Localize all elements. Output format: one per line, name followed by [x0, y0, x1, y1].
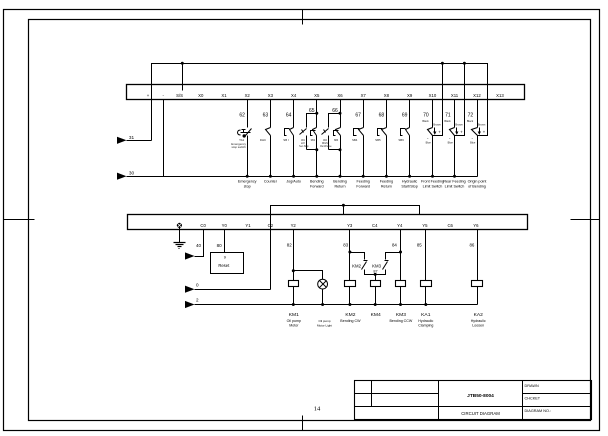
wire KM2 interlock branch — [350, 253, 365, 260]
svg-text:64: 64 — [286, 113, 292, 119]
svg-text:Oil pump: Oil pump — [318, 319, 330, 323]
node 87 junction — [374, 273, 377, 276]
svg-text:X10: X10 — [429, 93, 437, 98]
coil KA1 hydraulic clamping — [421, 281, 432, 287]
svg-text:67: 67 — [355, 113, 361, 119]
svg-text:71: 71 — [445, 113, 451, 119]
svg-text:X3: X3 — [268, 93, 274, 98]
svg-text:Sen Stop: Sen Stop — [299, 145, 309, 148]
wire net 30 rail — [127, 176, 478, 178]
selector switch SB1 jog-auto contact 64 — [293, 100, 295, 128]
svg-text:Bending: Bending — [310, 179, 324, 183]
svg-text:of Bending: of Bending — [468, 185, 486, 189]
svg-text:Emergency: Emergency — [238, 179, 257, 183]
svg-text:Run/Pause: Run/Pause — [320, 146, 332, 148]
svg-text:Counter: Counter — [264, 179, 278, 183]
wire net 40 — [195, 230, 204, 257]
svg-text:X12: X12 — [473, 93, 481, 98]
coil KM4 star contactor — [375, 275, 377, 281]
svg-text:Return: Return — [381, 185, 392, 189]
pushbutton TA1 emergency stop contact 62 — [247, 100, 249, 128]
parallel contacts 66 bending return — [340, 100, 342, 114]
svg-text:DRAWN: DRAWN — [525, 384, 539, 388]
svg-text:S/S: S/S — [176, 93, 183, 98]
svg-text:X6: X6 — [337, 93, 343, 98]
svg-text:CHCKET: CHCKET — [525, 396, 541, 400]
svg-text:Limit Switch: Limit Switch — [423, 185, 443, 189]
pushbutton SB6 contact 69 — [409, 100, 411, 128]
wire C2 common drop — [270, 206, 272, 290]
coil KM2 bending CW — [345, 281, 356, 287]
pushbutton SB5 contact 68 — [386, 100, 388, 128]
wire Y2 drop — [293, 230, 295, 281]
svg-text:Origin point: Origin point — [468, 179, 487, 183]
svg-text:2: 2 — [196, 297, 199, 302]
svg-text:DIAGRAM NO.:: DIAGRAM NO.: — [525, 409, 552, 413]
svg-text:Y1: Y1 — [245, 223, 251, 228]
svg-text:Black: Black — [444, 119, 451, 123]
node Y2 branch — [292, 269, 295, 272]
net 0 arrow — [185, 286, 195, 293]
switch DHC counter contact 63 — [270, 100, 272, 128]
pushbutton SB4 contact 67 — [363, 100, 365, 128]
svg-text:SB I: SB I — [283, 138, 289, 142]
svg-text:Bending CW: Bending CW — [340, 319, 361, 323]
svg-text:DHC: DHC — [260, 138, 266, 142]
svg-text:X8: X8 — [384, 93, 390, 98]
centre tick bottom — [302, 416, 304, 431]
svg-text:Brown: Brown — [455, 122, 463, 126]
svg-text:RIGN: RIGN — [322, 143, 328, 145]
wire Y6 drop — [477, 230, 479, 281]
svg-text:68: 68 — [379, 113, 385, 119]
svg-text:80: 80 — [217, 243, 223, 248]
svg-text:X4: X4 — [291, 93, 297, 98]
svg-text:Black: Black — [467, 119, 474, 123]
wire sensor70 plus drop — [433, 64, 443, 136]
svg-text:Y6: Y6 — [473, 223, 479, 228]
node Y3 branch — [348, 251, 351, 254]
svg-text:87: 87 — [373, 269, 377, 273]
svg-text:72: 72 — [468, 113, 474, 119]
contact KM3 NC interlock — [385, 260, 389, 262]
wire minus drop — [163, 100, 165, 177]
svg-text:62: 62 — [239, 113, 245, 119]
svg-text:X11: X11 — [451, 93, 459, 98]
svg-text:Hydraulic: Hydraulic — [418, 319, 433, 323]
net 2 arrow — [185, 301, 195, 308]
proximity sensor contact 71 — [454, 100, 456, 128]
svg-text:X9: X9 — [407, 93, 413, 98]
coil KM1 oil pump motor — [289, 281, 299, 287]
svg-text:Motor: Motor — [289, 324, 299, 328]
svg-text:Limit Switch: Limit Switch — [445, 185, 465, 189]
node sensor71 plus — [463, 62, 466, 65]
svg-text:83: 83 — [343, 243, 348, 248]
wire common link drop — [343, 206, 345, 215]
svg-text:14: 14 — [314, 406, 321, 413]
svg-text:SB3: SB3 — [334, 140, 339, 142]
svg-text:Bending CCW: Bending CCW — [390, 319, 413, 323]
svg-text:C6: C6 — [447, 223, 453, 228]
PLC output terminal block — [128, 215, 528, 230]
svg-text:Feeding: Feeding — [380, 179, 393, 183]
svg-text:KA2: KA2 — [474, 312, 484, 318]
svg-text:KA1: KA1 — [421, 312, 431, 318]
svg-text:KM3: KM3 — [372, 264, 381, 269]
svg-text:KM3: KM3 — [396, 312, 406, 318]
wire +24V top rail — [152, 64, 488, 141]
parallel contacts 65 bending forward — [316, 100, 318, 114]
svg-text:KM2: KM2 — [352, 264, 361, 269]
svg-text:C4: C4 — [372, 223, 378, 228]
svg-text:Y4: Y4 — [397, 223, 403, 228]
wire lamp branch — [294, 271, 323, 280]
contact KM2 NC interlock — [364, 260, 368, 262]
svg-text:9: 9 — [224, 255, 226, 259]
svg-text:X0: X0 — [198, 93, 204, 98]
wire net 31 — [127, 140, 152, 142]
svg-text:KM1: KM1 — [289, 312, 299, 318]
node S/S junction — [181, 62, 184, 65]
net 40 arrow — [185, 252, 195, 259]
svg-text:Hydraulic: Hydraulic — [471, 319, 486, 323]
svg-text:31: 31 — [129, 135, 135, 140]
svg-text:Forward: Forward — [356, 185, 370, 189]
net 30 arrow — [117, 173, 127, 180]
svg-text:Return: Return — [334, 185, 345, 189]
svg-text:82: 82 — [287, 243, 292, 248]
wire net 2 output rail — [195, 304, 478, 306]
svg-text:Front Feeding: Front Feeding — [421, 179, 444, 183]
terminal earth circle — [177, 223, 182, 228]
svg-text:Y2: Y2 — [291, 223, 297, 228]
svg-text:65: 65 — [309, 108, 315, 114]
svg-text:70: 70 — [423, 113, 429, 119]
svg-text:Black: Black — [422, 119, 429, 123]
svg-text:JD2: JD2 — [323, 140, 328, 142]
svg-text:85: 85 — [417, 243, 422, 248]
proximity sensor contact 72 — [477, 100, 479, 128]
centre tick left — [4, 219, 35, 221]
centre tick right — [571, 219, 600, 221]
svg-text:0: 0 — [196, 283, 199, 288]
wire net 0 — [195, 289, 271, 291]
svg-text:X2: X2 — [245, 93, 251, 98]
svg-text:40: 40 — [196, 243, 202, 248]
svg-text:Blue: Blue — [470, 140, 476, 144]
svg-text:Motor Light: Motor Light — [317, 324, 332, 328]
centre tick top — [302, 10, 304, 25]
svg-text:Start/Stop: Start/Stop — [401, 185, 417, 189]
svg-text:Rear Feeding: Rear Feeding — [443, 179, 465, 183]
svg-text:Brown: Brown — [478, 122, 486, 126]
svg-text:69: 69 — [402, 113, 408, 119]
svg-text:JTB50-8004: JTB50-8004 — [467, 393, 494, 399]
svg-text:X7: X7 — [361, 93, 367, 98]
svg-text:stop switch: stop switch — [232, 145, 247, 149]
svg-text:Loosen: Loosen — [472, 324, 484, 328]
svg-text:Y5: Y5 — [422, 223, 428, 228]
reset module box — [224, 230, 226, 253]
lamp HL oil pump motor light — [318, 279, 328, 289]
svg-text:Brown: Brown — [433, 122, 441, 126]
svg-text:X13: X13 — [496, 93, 504, 98]
svg-text:Y0: Y0 — [222, 223, 228, 228]
svg-text:Oil pump: Oil pump — [287, 319, 301, 323]
node sensor70 plus — [441, 62, 444, 65]
svg-text:84: 84 — [392, 243, 397, 248]
coil KA2 hydraulic loosen — [472, 281, 483, 287]
wire Y3 drop — [349, 230, 351, 281]
svg-text:Clamping: Clamping — [418, 324, 433, 328]
coil KM3 bending CCW — [396, 281, 406, 287]
svg-text:Bending: Bending — [333, 179, 347, 183]
svg-text:Reset: Reset — [218, 263, 230, 268]
svg-text:LAY: LAY — [301, 142, 306, 145]
svg-text:SB4: SB4 — [352, 138, 358, 142]
svg-text:X5: X5 — [314, 93, 320, 98]
wire S/S drop — [182, 64, 184, 91]
svg-text:CIRCUIT DIAGRAM: CIRCUIT DIAGRAM — [461, 411, 500, 416]
svg-text:30: 30 — [129, 171, 135, 176]
svg-text:Blue: Blue — [448, 140, 454, 144]
wire sensor71 plus drop — [455, 64, 465, 136]
svg-text:stop: stop — [244, 185, 251, 189]
wire Y4 drop — [400, 230, 402, 281]
wire Y5 drop — [425, 230, 427, 281]
node Y4 branch — [399, 251, 402, 254]
svg-text:63: 63 — [263, 113, 269, 119]
svg-text:JD1: JD1 — [301, 140, 306, 142]
svg-text:66: 66 — [332, 108, 338, 114]
svg-text:KM4: KM4 — [371, 312, 381, 318]
svg-text:SB6: SB6 — [398, 138, 404, 142]
proximity sensor contact 70 — [432, 100, 434, 128]
node common link — [342, 204, 345, 207]
svg-text:Forward: Forward — [310, 185, 324, 189]
svg-text:SB2: SB2 — [311, 140, 316, 142]
svg-text:Blue: Blue — [426, 140, 432, 144]
svg-text:86: 86 — [469, 243, 474, 248]
svg-text:Y3: Y3 — [347, 223, 353, 228]
svg-text:Jog/Auto: Jog/Auto — [286, 179, 301, 183]
wire KM3 interlock branch — [386, 253, 401, 260]
common link wire C-terminals — [271, 206, 420, 215]
title block frame — [355, 381, 592, 420]
svg-text:X1: X1 — [221, 93, 227, 98]
PLC input terminal block — [127, 85, 525, 100]
svg-text:Hydraulic: Hydraulic — [402, 179, 418, 183]
svg-text:KM2: KM2 — [345, 312, 355, 318]
svg-text:Feeding: Feeding — [357, 179, 370, 183]
ground symbol — [179, 228, 181, 243]
svg-text:SB5: SB5 — [375, 138, 381, 142]
net 31 arrow — [117, 137, 127, 144]
svg-text:C0: C0 — [200, 223, 206, 228]
